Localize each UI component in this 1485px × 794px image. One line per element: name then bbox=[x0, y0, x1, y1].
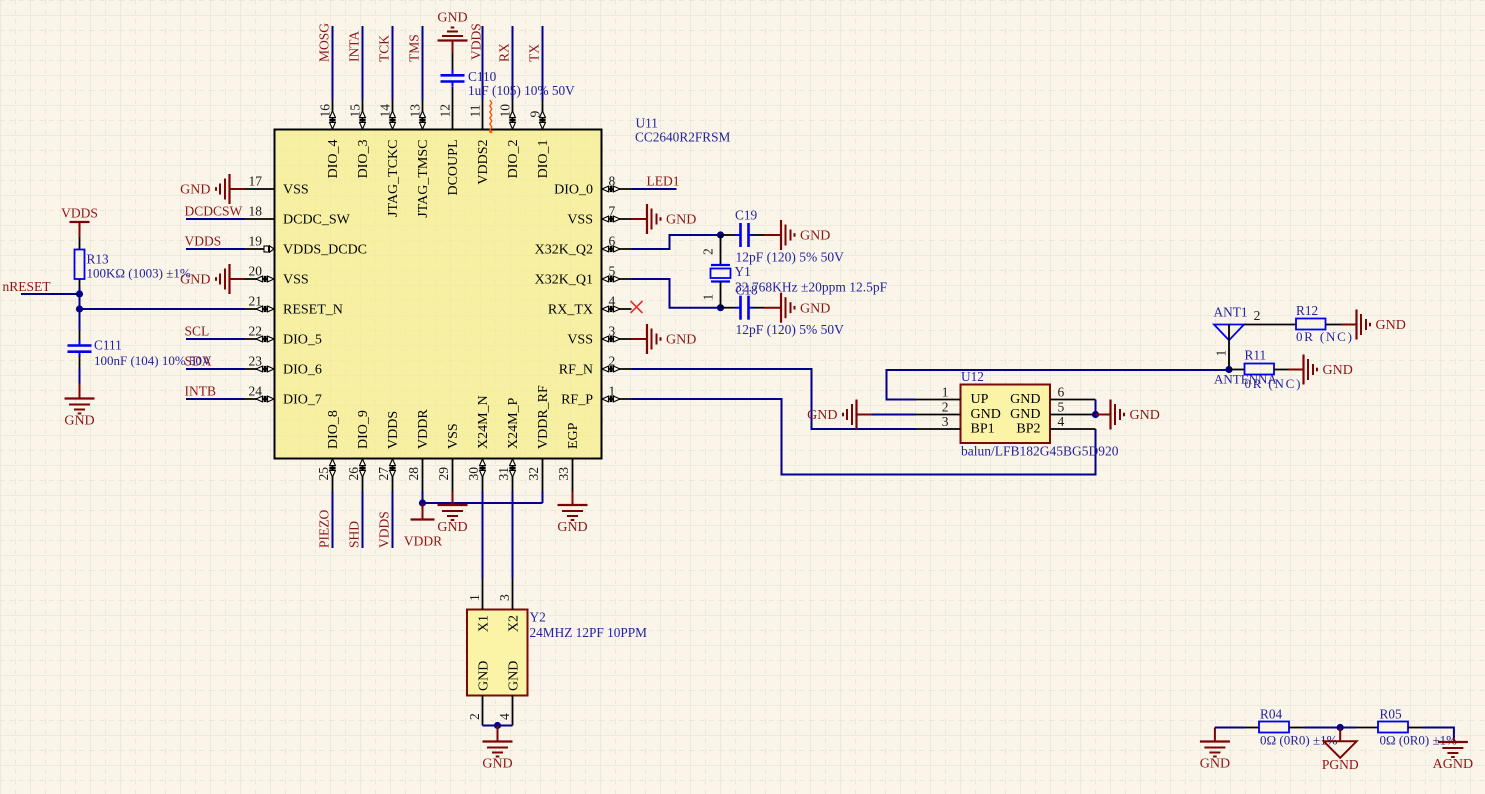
svg-text:BP1: BP1 bbox=[971, 422, 995, 437]
svg-text:EGP: EGP bbox=[566, 422, 581, 449]
svg-text:DCDC_SW: DCDC_SW bbox=[283, 213, 351, 228]
svg-text:INTA: INTA bbox=[347, 31, 362, 62]
Y2 pin 2 (GND) bbox=[482, 696, 484, 726]
pin 14 (JTAG_TCKC) top bbox=[378, 100, 402, 217]
wire pin 31 to Y2 X2 bbox=[512, 492, 514, 579]
wire net SCL (left) bbox=[186, 338, 245, 340]
svg-text:SHD: SHD bbox=[347, 521, 362, 548]
ground (pin 29) bbox=[452, 492, 454, 506]
svg-text:0Ω (0R0) ±1%: 0Ω (0R0) ±1% bbox=[1380, 733, 1458, 748]
svg-text:3: 3 bbox=[942, 414, 949, 429]
svg-text:GND: GND bbox=[800, 301, 830, 316]
svg-text:X32K_Q2: X32K_Q2 bbox=[535, 243, 593, 258]
svg-text:GND: GND bbox=[482, 757, 512, 772]
wire net VDDS2 (pin 11) bbox=[482, 26, 484, 100]
capacitor C111 bbox=[79, 331, 81, 341]
svg-text:GND: GND bbox=[971, 407, 1001, 422]
svg-text:X24M_P: X24M_P bbox=[506, 397, 521, 449]
wire net INTA (top, pin column x=362.5) bbox=[362, 26, 364, 100]
svg-text:DIO_2: DIO_2 bbox=[506, 140, 521, 179]
svg-text:18: 18 bbox=[249, 204, 263, 219]
junction node PGND bbox=[1337, 724, 1344, 731]
svg-text:VDDS: VDDS bbox=[386, 411, 401, 449]
wire pin 6 X32K_Q2 to junction bbox=[632, 235, 721, 249]
svg-text:U11: U11 bbox=[636, 116, 658, 131]
wire RF_N pin 2 to U12 BP1 bbox=[632, 369, 917, 429]
svg-text:11: 11 bbox=[468, 105, 483, 118]
wire R05 to AGND bbox=[1408, 727, 1423, 729]
svg-text:Y2: Y2 bbox=[530, 610, 546, 625]
svg-text:AGND: AGND bbox=[1433, 757, 1473, 772]
svg-text:GND: GND bbox=[666, 333, 696, 348]
svg-text:0R (NC): 0R (NC) bbox=[1245, 376, 1303, 391]
IC U11 CC2640R2FRSM body bbox=[275, 130, 602, 459]
pin 32 (VDDR_RF) bottom bbox=[526, 385, 551, 492]
svg-text:GND: GND bbox=[477, 661, 492, 691]
svg-text:26: 26 bbox=[346, 467, 361, 481]
wire U12 pin6 down to pin5 node bbox=[1095, 400, 1097, 415]
junction node Y2 gnd bbox=[494, 722, 501, 729]
svg-text:1uF (105) 10% 50V: 1uF (105) 10% 50V bbox=[468, 83, 575, 98]
svg-text:INTB: INTB bbox=[185, 384, 217, 399]
svg-text:GND: GND bbox=[64, 414, 94, 429]
svg-text:R04: R04 bbox=[1260, 707, 1283, 722]
wire C110 to pin 12 bbox=[452, 87, 454, 100]
pin 3 (VSS) right bbox=[567, 324, 631, 348]
svg-text:25: 25 bbox=[316, 467, 331, 481]
pin 1 (RF_P) right bbox=[561, 384, 631, 408]
pin 6 (X32K_Q2) right bbox=[535, 234, 632, 258]
svg-text:SCL: SCL bbox=[185, 324, 210, 339]
svg-text:23: 23 bbox=[249, 354, 263, 369]
wire R12 to ground bbox=[1326, 324, 1342, 326]
svg-text:X24M_N: X24M_N bbox=[476, 395, 491, 449]
svg-text:GND: GND bbox=[180, 273, 210, 288]
svg-text:20: 20 bbox=[249, 264, 263, 279]
capacitor C19 bbox=[721, 234, 737, 236]
wire R04 to junction to R05 bbox=[1289, 727, 1304, 729]
ground (pin 17, rotated left) bbox=[228, 174, 230, 204]
ground (right of U12) bbox=[1096, 414, 1111, 416]
svg-text:RF_P: RF_P bbox=[561, 393, 593, 408]
svg-text:12: 12 bbox=[438, 104, 453, 118]
svg-text:VSS: VSS bbox=[283, 273, 309, 288]
ground (pin 7, rotated right) bbox=[632, 218, 648, 220]
svg-text:VDDS: VDDS bbox=[469, 23, 484, 60]
svg-text:VDDR_RF: VDDR_RF bbox=[536, 385, 551, 449]
svg-text:GND: GND bbox=[1323, 363, 1353, 378]
svg-text:VSS: VSS bbox=[567, 213, 593, 228]
pin 29 (VSS) bottom bbox=[436, 423, 461, 491]
svg-text:MOSG: MOSG bbox=[317, 23, 332, 62]
wire net SDA (left) bbox=[186, 368, 245, 370]
svg-text:U12: U12 bbox=[961, 369, 984, 384]
ground (left of U12 pin 2) bbox=[855, 400, 857, 430]
svg-text:GND: GND bbox=[180, 183, 210, 198]
svg-text:TMS: TMS bbox=[407, 34, 422, 62]
svg-text:22: 22 bbox=[249, 324, 263, 339]
svg-text:1: 1 bbox=[467, 594, 482, 601]
resistor R13 bbox=[75, 250, 85, 280]
junction node nRESET/R13 bbox=[76, 290, 83, 297]
svg-text:0Ω (0R0) ±1%: 0Ω (0R0) ±1% bbox=[1260, 733, 1338, 748]
pin 28 (VDDR) bottom bbox=[406, 409, 431, 492]
ground (power port GND, pointing up, above C110) bbox=[438, 39, 468, 41]
svg-text:1: 1 bbox=[1214, 350, 1229, 357]
pin 22 (DIO_5) left bbox=[245, 324, 322, 348]
svg-text:24: 24 bbox=[249, 384, 263, 399]
svg-text:GND: GND bbox=[557, 520, 587, 535]
svg-text:GND: GND bbox=[1130, 408, 1160, 423]
svg-text:VDDR: VDDR bbox=[404, 534, 442, 549]
wire ground stem to C110 bbox=[452, 41, 454, 54]
power port PGND (open triangle) bbox=[1339, 728, 1341, 742]
antenna ANT1 bbox=[1214, 325, 1244, 341]
svg-text:UP: UP bbox=[971, 392, 989, 407]
svg-text:balun/LFB182G45BG5D920: balun/LFB182G45BG5D920 bbox=[961, 444, 1119, 459]
ground AGND bbox=[1438, 741, 1468, 743]
svg-text:DIO_1: DIO_1 bbox=[536, 140, 551, 179]
pin 2 (RF_N) right bbox=[559, 354, 632, 378]
resistor R04 bbox=[1259, 722, 1289, 733]
svg-text:24MHZ 12PF 10PPM: 24MHZ 12PF 10PPM bbox=[530, 625, 648, 640]
svg-text:5: 5 bbox=[1058, 400, 1065, 415]
svg-text:2: 2 bbox=[467, 713, 482, 720]
svg-text:PGND: PGND bbox=[1322, 757, 1359, 772]
pin 7 (VSS) right bbox=[567, 204, 631, 228]
svg-text:DIO_4: DIO_4 bbox=[326, 140, 341, 179]
pin 30 (X24M_N) bottom bbox=[466, 395, 491, 491]
ground (below Y2) bbox=[497, 726, 499, 742]
svg-text:TCK: TCK bbox=[377, 35, 392, 62]
svg-text:VDDR: VDDR bbox=[416, 409, 431, 449]
wire R13 bottom to junction bbox=[79, 279, 81, 287]
pin 5 (X32K_Q1) right bbox=[535, 264, 632, 288]
U12 pin 6 (GND) bbox=[1050, 399, 1096, 401]
Y2 pin 4 (GND) bbox=[512, 696, 514, 726]
pin 4 (RX_TX) right bbox=[548, 294, 632, 318]
svg-text:4: 4 bbox=[1058, 414, 1065, 429]
wire net MOSG (top, pin column x=332.5) bbox=[332, 26, 334, 100]
U12 pin 2 (GND) bbox=[916, 414, 961, 416]
wire net LED1 (pin 8) bbox=[632, 188, 677, 190]
svg-text:BP2: BP2 bbox=[1016, 422, 1040, 437]
svg-text:C110: C110 bbox=[468, 69, 497, 84]
U12 pin 3 (BP1) bbox=[916, 428, 961, 430]
svg-text:C18: C18 bbox=[736, 283, 759, 298]
svg-text:DIO_5: DIO_5 bbox=[283, 333, 322, 348]
svg-text:VDDS: VDDS bbox=[185, 234, 222, 249]
wire nRESET bbox=[21, 293, 80, 295]
wire pin20 gnd bbox=[230, 278, 245, 280]
ground (right of R12) bbox=[1355, 310, 1357, 340]
Y2 pin 1 (X1) bbox=[482, 578, 484, 610]
svg-text:0R (NC): 0R (NC) bbox=[1296, 329, 1354, 344]
pin 16 (DIO_4) top bbox=[318, 100, 342, 179]
svg-text:VSS: VSS bbox=[446, 423, 461, 449]
svg-text:C111: C111 bbox=[94, 338, 122, 353]
svg-text:4: 4 bbox=[497, 713, 512, 720]
junction node X32K_Q2 bbox=[717, 231, 724, 238]
svg-text:VDDS: VDDS bbox=[377, 511, 392, 548]
wire net SHD (bottom) bbox=[362, 492, 364, 549]
svg-text:ANT1: ANT1 bbox=[1214, 305, 1248, 320]
ground (C18, rotated right) bbox=[764, 307, 781, 309]
svg-text:R12: R12 bbox=[1296, 303, 1318, 318]
U12 pin 5 (GND) bbox=[1050, 414, 1096, 416]
svg-text:RX_TX: RX_TX bbox=[548, 303, 593, 318]
svg-text:DCDCSW: DCDCSW bbox=[185, 204, 243, 219]
wire U12 pin2 to ground bbox=[872, 414, 917, 416]
svg-text:JTAG_TMSC: JTAG_TMSC bbox=[416, 140, 431, 218]
svg-text:DCOUPL: DCOUPL bbox=[446, 140, 461, 196]
ANT1 pin 2 wire to R12 bbox=[1244, 324, 1296, 326]
svg-text:RESET_N: RESET_N bbox=[283, 303, 343, 318]
U12 pin 1 (UP) bbox=[916, 399, 961, 401]
pin 17 (VSS) left bbox=[245, 174, 309, 198]
svg-text:C19: C19 bbox=[735, 208, 758, 223]
pin 15 (DIO_3) top bbox=[348, 100, 372, 179]
svg-text:3: 3 bbox=[497, 594, 512, 601]
svg-text:2: 2 bbox=[701, 248, 716, 255]
svg-text:GND: GND bbox=[666, 213, 696, 228]
no-connect marker on pin 4 RX_TX bbox=[631, 301, 643, 313]
svg-text:JTAG_TCKC: JTAG_TCKC bbox=[386, 140, 401, 217]
wire net TX (top, pin column x=542.5) bbox=[542, 26, 544, 100]
power port VDDR (bar symbol pointing down) bbox=[422, 503, 424, 520]
pin 25 (DIO_8) bottom bbox=[316, 410, 341, 491]
resistor R05 bbox=[1378, 722, 1408, 733]
wire gnd to R04 bbox=[1215, 727, 1245, 729]
wire R11 to ground bbox=[1274, 369, 1289, 371]
svg-text:12pF (120) 5% 50V: 12pF (120) 5% 50V bbox=[736, 250, 845, 265]
wire to pin 21 RESET_N bbox=[80, 308, 245, 310]
ground (below C111) bbox=[65, 397, 95, 399]
svg-text:GND: GND bbox=[507, 661, 522, 691]
svg-text:DIO_9: DIO_9 bbox=[356, 410, 371, 449]
svg-text:6: 6 bbox=[1058, 385, 1065, 400]
wire VDDS to R13 bbox=[79, 237, 81, 250]
wire pin 28 VDDR junction bbox=[422, 492, 424, 504]
wire RF_P pin 1 to U12 BP2 bbox=[632, 399, 1096, 475]
wire net TCK (top, pin column x=392.5) bbox=[392, 26, 394, 100]
svg-text:31: 31 bbox=[496, 467, 511, 481]
svg-text:28: 28 bbox=[406, 467, 421, 481]
svg-text:VSS: VSS bbox=[283, 183, 309, 198]
svg-text:Y1: Y1 bbox=[735, 264, 751, 279]
pin 23 (DIO_6) left bbox=[245, 354, 322, 378]
pin 24 (DIO_7) left bbox=[245, 384, 322, 408]
svg-text:30: 30 bbox=[466, 467, 481, 481]
ground (pin 3, rotated right) bbox=[632, 338, 648, 340]
ground (pin 20, rotated left) bbox=[228, 264, 230, 294]
wire net VDDS (bottom) bbox=[392, 492, 394, 549]
resistor R11 bbox=[1229, 369, 1245, 371]
IC U12 balun body bbox=[961, 385, 1051, 444]
svg-text:29: 29 bbox=[436, 467, 451, 481]
crystal Y1 bbox=[720, 235, 722, 265]
svg-text:CC2640R2FRSM: CC2640R2FRSM bbox=[635, 130, 731, 145]
svg-text:DIO_7: DIO_7 bbox=[283, 393, 322, 408]
svg-text:2: 2 bbox=[942, 400, 949, 415]
svg-text:VDDS_DCDC: VDDS_DCDC bbox=[283, 243, 367, 258]
svg-text:R13: R13 bbox=[87, 252, 110, 267]
svg-text:LED1: LED1 bbox=[647, 174, 680, 189]
svg-text:12pF (120) 5% 50V: 12pF (120) 5% 50V bbox=[736, 322, 845, 337]
wire pin 5 X32K_Q1 to junction bbox=[632, 279, 721, 308]
wire net PIEZO (bottom) bbox=[332, 492, 334, 549]
junction node U12 pin5/pin6 bbox=[1092, 411, 1099, 418]
svg-text:GND: GND bbox=[800, 229, 830, 244]
wire pin28 to pin32 bbox=[423, 502, 543, 504]
compile-error squiggle marker near pin 11 bbox=[490, 100, 492, 130]
pin 12 (DCOUPL) top bbox=[438, 100, 462, 196]
U12 pin 4 (BP2) bbox=[1050, 428, 1096, 430]
svg-text:GND: GND bbox=[437, 11, 467, 26]
wire net VDDS (left) bbox=[186, 248, 245, 250]
svg-text:33: 33 bbox=[556, 467, 571, 481]
svg-text:PIEZO: PIEZO bbox=[317, 510, 332, 548]
svg-text:GND: GND bbox=[807, 408, 837, 423]
svg-text:32: 32 bbox=[526, 467, 541, 481]
pin 26 (DIO_9) bottom bbox=[346, 410, 371, 491]
wire pin 30 to Y2 X1 bbox=[482, 492, 484, 579]
svg-text:VDDS: VDDS bbox=[61, 206, 98, 221]
Y2 pin 3 (X2) bbox=[512, 578, 514, 610]
wire pin17 gnd bbox=[230, 188, 245, 190]
svg-text:19: 19 bbox=[249, 234, 263, 249]
wire Y2 gnd pins bbox=[483, 725, 513, 727]
svg-text:27: 27 bbox=[376, 467, 391, 481]
capacitor C110 bbox=[452, 70, 454, 76]
svg-text:DIO_3: DIO_3 bbox=[356, 140, 371, 179]
ground (C19, rotated right) bbox=[764, 234, 781, 236]
pin 27 (VDDS) bottom bbox=[376, 411, 401, 492]
junction node X32K_Q1 bbox=[717, 304, 724, 311]
pin 8 (DIO_0) right bbox=[554, 174, 631, 198]
wire ANTENNA net: U12 UP pin to antenna junction bbox=[887, 370, 1230, 400]
capacitor C18 bbox=[721, 307, 737, 309]
svg-text:100nF (104) 10% 50V: 100nF (104) 10% 50V bbox=[94, 353, 212, 368]
svg-text:2: 2 bbox=[1254, 308, 1261, 323]
svg-text:17: 17 bbox=[249, 174, 263, 189]
svg-text:DIO_6: DIO_6 bbox=[283, 363, 322, 378]
crystal Y2 body bbox=[467, 610, 528, 696]
svg-text:GND: GND bbox=[1376, 318, 1406, 333]
svg-text:32.768KHz ±20ppm 12.5pF: 32.768KHz ±20ppm 12.5pF bbox=[735, 280, 888, 295]
wire net DCDCSW (left) bbox=[186, 218, 245, 220]
pin 11 (VDDS2) top bbox=[468, 100, 492, 185]
ground (left of R04) bbox=[1214, 728, 1216, 742]
wire net TMS (top, pin column x=422.5) bbox=[422, 26, 424, 100]
svg-text:100KΩ (1003) ±1%: 100KΩ (1003) ±1% bbox=[87, 266, 191, 281]
svg-text:GND: GND bbox=[1200, 757, 1230, 772]
pin 9 (DIO_1) top bbox=[528, 100, 552, 179]
pin 19 (VDDS_DCDC) left bbox=[245, 234, 368, 258]
svg-text:1: 1 bbox=[942, 385, 949, 400]
svg-text:RF_N: RF_N bbox=[559, 363, 593, 378]
ground (right of R11) bbox=[1302, 355, 1304, 385]
junction node VDDR bbox=[419, 499, 426, 506]
pin 10 (DIO_2) top bbox=[498, 100, 522, 179]
svg-text:GND: GND bbox=[1010, 392, 1040, 407]
svg-text:DIO_0: DIO_0 bbox=[554, 183, 593, 198]
resistor R12 bbox=[1296, 319, 1326, 330]
svg-text:DIO_8: DIO_8 bbox=[326, 410, 341, 449]
svg-text:VSS: VSS bbox=[567, 333, 593, 348]
svg-text:1: 1 bbox=[701, 294, 716, 301]
pin 21 (RESET_N) left bbox=[245, 294, 343, 318]
pin 31 (X24M_P) bottom bbox=[496, 397, 521, 491]
wire net RX (top, pin column x=512.5) bbox=[512, 26, 514, 100]
svg-text:X32K_Q1: X32K_Q1 bbox=[535, 273, 593, 288]
wire C111 to ground bbox=[79, 357, 81, 369]
wire net INTB (left) bbox=[186, 398, 245, 400]
pin 13 (JTAG_TMSC) top bbox=[408, 100, 432, 218]
svg-text:R11: R11 bbox=[1245, 348, 1267, 363]
svg-text:TX: TX bbox=[527, 44, 542, 62]
pin 18 (DCDC_SW) left bbox=[245, 204, 351, 228]
svg-text:R05: R05 bbox=[1380, 707, 1403, 722]
svg-text:21: 21 bbox=[249, 294, 263, 309]
pin 33 (EGP) bottom bbox=[556, 422, 581, 491]
svg-text:GND: GND bbox=[1010, 407, 1040, 422]
svg-text:GND: GND bbox=[437, 520, 467, 535]
svg-text:VDDS2: VDDS2 bbox=[476, 140, 491, 185]
pin 20 (VSS) left bbox=[245, 264, 309, 288]
ground (pin 33) bbox=[572, 492, 574, 506]
svg-text:RX: RX bbox=[497, 43, 512, 62]
svg-text:X1: X1 bbox=[477, 615, 492, 632]
svg-text:nRESET: nRESET bbox=[3, 279, 52, 294]
svg-text:X2: X2 bbox=[507, 615, 522, 632]
junction node RESET_N bbox=[76, 305, 83, 312]
junction node ANTENNA bbox=[1225, 366, 1232, 373]
